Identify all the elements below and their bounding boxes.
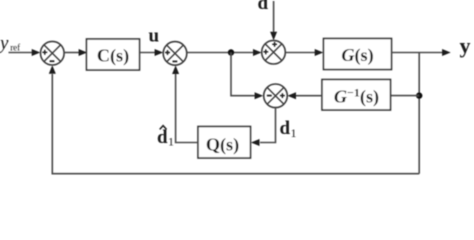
wire feedback branch down from y (418, 53, 420, 174)
svg-text:1: 1 (168, 134, 174, 148)
summing junction S1 (41, 41, 65, 65)
svg-text:d: d (258, 0, 269, 14)
block G-1(s) (322, 80, 391, 111)
wire d input (270, 1, 277, 40)
svg-text:y: y (460, 33, 471, 58)
svg-text:C(s): C(s) (97, 45, 129, 66)
svg-text:ref: ref (10, 43, 20, 53)
svg-text:d: d (157, 127, 168, 148)
svg-text:u: u (149, 26, 160, 47)
wire bottom feedback to S1 (49, 65, 419, 174)
wire G-1(s) to S4 (287, 92, 322, 99)
summing junction S2 (163, 42, 187, 66)
svg-text:G(s): G(s) (341, 45, 373, 66)
wire node down and to S4 (231, 53, 263, 100)
wire Q(s) to S2 bottom (172, 65, 198, 142)
wire G(s) to y output (392, 49, 451, 56)
node d1 label (280, 118, 297, 140)
node dhat1 label (157, 126, 174, 149)
wire S2 to S3 (187, 49, 262, 56)
summing junction S4 (264, 84, 288, 108)
block G(s) (324, 39, 392, 70)
wire S3 to G(s) (285, 49, 323, 56)
wire C(s) to S2 (140, 49, 164, 56)
summing junction S3 (262, 40, 286, 64)
block Q(s) (198, 127, 251, 159)
node feedback dot (416, 92, 422, 98)
svg-text:y: y (0, 33, 9, 54)
svg-text:d: d (280, 118, 291, 139)
node branch dot (228, 49, 234, 55)
block C(s) (87, 39, 140, 70)
node yref label (0, 33, 20, 54)
wire y to G-1(s) (391, 95, 420, 97)
wire yref input (9, 49, 41, 56)
wire S4 down to Q(s) (251, 108, 276, 146)
svg-text:Q(s): Q(s) (206, 135, 239, 156)
svg-text:1: 1 (291, 126, 297, 140)
wire S1 to C(s) (64, 49, 87, 56)
